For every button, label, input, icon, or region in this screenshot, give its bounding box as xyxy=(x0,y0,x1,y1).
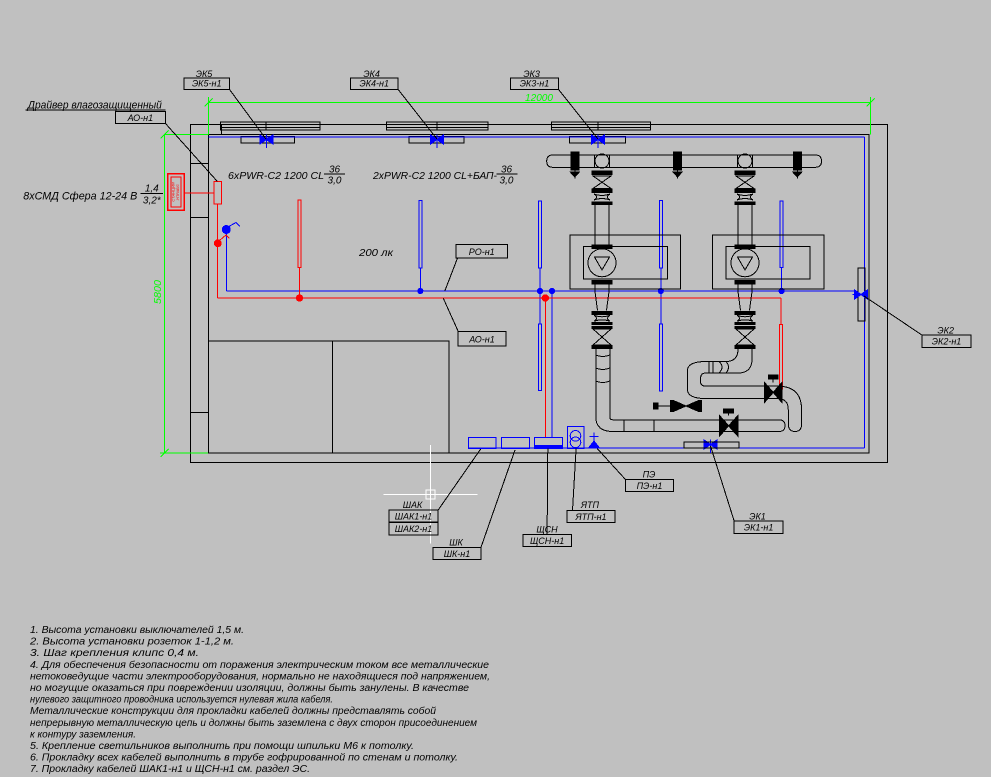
pipe mid horizontal xyxy=(706,385,778,387)
label AO-n1 top xyxy=(115,112,165,124)
panel SHAK xyxy=(468,438,496,449)
callout line EK1 xyxy=(711,446,735,521)
svg-text:ЭК2: ЭК2 xyxy=(937,325,954,335)
svg-text:нулевого защитного проводник: нулевого защитного проводника использует… xyxy=(30,694,333,706)
manifold tee 2 xyxy=(738,154,752,168)
junction box 1 xyxy=(241,137,295,144)
wire blue right wall drop xyxy=(864,137,866,448)
dimension arrow tick left top xyxy=(205,99,213,107)
wire red driver link xyxy=(184,192,214,194)
callout line AO driver xyxy=(165,123,217,181)
dimension arrow tick left dim bottom xyxy=(161,449,169,457)
left wall tick 3 xyxy=(191,412,208,414)
branch chain pump1 bottom xyxy=(595,293,609,311)
pipe right elbow down xyxy=(778,386,802,424)
svg-text:ПЭ-н1: ПЭ-н1 xyxy=(637,481,663,491)
pipe manifold top xyxy=(553,155,816,167)
wire blue drop to SCHSN xyxy=(551,291,553,438)
valve on floor pipe xyxy=(720,416,729,437)
junction dot red 1 xyxy=(296,295,302,301)
svg-text:ПЭ: ПЭ xyxy=(643,470,656,480)
branch chain pump1 top xyxy=(592,171,613,176)
label AO-n1 room xyxy=(458,331,506,345)
svg-text:к контуру заземления.: к контуру заземления. xyxy=(30,729,136,740)
svg-text:7. Прокладку кабелей ШАК1-н: 7. Прокладку кабелей ШАК1-н1 и ЩСН-н1 см… xyxy=(30,763,310,775)
linear lamp blue u1 xyxy=(419,201,422,269)
resistor driver red xyxy=(214,182,222,204)
junction box EK1 floor xyxy=(684,442,739,448)
svg-text:2. Высота установки розеток 1: 2. Высота установки розеток 1-1,2 м. xyxy=(29,637,234,648)
dimension extension bottom horizontal xyxy=(160,452,209,454)
svg-text:3,2*: 3,2* xyxy=(143,196,162,207)
svg-text:1,4: 1,4 xyxy=(145,184,159,195)
linear lamp red u1 xyxy=(298,200,301,268)
wire red right drop xyxy=(780,298,782,325)
dimension arrow tick left dim top xyxy=(161,131,169,139)
cursor crosshair xyxy=(384,493,478,495)
panel SCHSN xyxy=(535,438,563,449)
svg-text:12000: 12000 xyxy=(525,93,553,104)
store room rectangle xyxy=(209,341,450,453)
pipe pump2 S-bend xyxy=(726,349,752,373)
callout line EK3 xyxy=(558,89,598,139)
svg-text:ЯТП: ЯТП xyxy=(580,500,600,510)
pipe pump1 drop xyxy=(595,349,597,417)
svg-text:Драйвер влагозащищенный: Драйвер влагозащищенный xyxy=(26,99,162,111)
linear lamp red right xyxy=(780,325,783,390)
callout line YATP xyxy=(573,449,577,511)
svg-text:6. Прокладку всех кабелей: 6. Прокладку всех кабелей выполнить в тр… xyxy=(30,752,458,764)
svg-text:непрерывную металлическую це: непрерывную металлическую цепь и должны … xyxy=(30,717,477,729)
svg-text:ЭК3-н1: ЭК3-н1 xyxy=(520,78,550,88)
top wall tick xyxy=(221,125,223,135)
wall outlet X EK1 xyxy=(704,440,711,449)
svg-text:Металлические конструкции дл: Металлические конструкции для прокладки … xyxy=(30,705,436,717)
callout line PE xyxy=(597,449,625,480)
wire blue ceiling run xyxy=(209,136,865,138)
linear lamp blue u2 xyxy=(539,201,542,268)
dimension extension left vertical xyxy=(208,97,210,135)
gate valve manifold 1 xyxy=(570,152,579,171)
svg-text:ЩСН: ЩСН xyxy=(536,525,558,535)
junction dot blue 3 xyxy=(549,288,554,293)
left wall tick 1 xyxy=(191,163,208,165)
gate valve manifold 2 xyxy=(673,152,682,171)
dimension line 12000 horizontal xyxy=(209,102,871,104)
wire blue lamp drop left xyxy=(225,233,227,291)
svg-text:ЩСН-н1: ЩСН-н1 xyxy=(530,536,564,546)
wall outlet X EK2 xyxy=(855,290,862,299)
svg-text:4. Для обеспечения безопасн: 4. Для обеспечения безопасности от пораж… xyxy=(30,659,489,671)
callout line AO room xyxy=(443,298,458,331)
junction dot red 2 xyxy=(542,295,548,301)
svg-text:ШАК1-н1: ШАК1-н1 xyxy=(395,512,433,522)
junction dot blue 5 xyxy=(779,288,784,293)
wall outer outline xyxy=(191,125,888,463)
svg-text:200 лк: 200 лк xyxy=(358,247,394,259)
svg-text:3,0: 3,0 xyxy=(500,175,514,186)
svg-text:ШК: ШК xyxy=(449,538,463,548)
callout line EK4 xyxy=(398,89,437,139)
svg-text:ШК-н1: ШК-н1 xyxy=(444,549,471,559)
wire blue floor run xyxy=(468,447,865,449)
svg-text:ЭК1: ЭК1 xyxy=(749,512,766,522)
wire red drop from driver xyxy=(217,204,219,298)
pump unit 1 xyxy=(570,235,681,289)
svg-text:ЭК5-н1: ЭК5-н1 xyxy=(192,78,222,88)
svg-text:6хPWR-С2 1200 CL: 6хPWR-С2 1200 CL xyxy=(228,170,324,182)
ceiling outlet X EK5 xyxy=(260,135,267,144)
ground symbol PE xyxy=(593,433,595,448)
manifold tee 1 xyxy=(595,154,609,168)
driver box red xyxy=(168,174,185,211)
svg-text:1. Высота установки выключате: 1. Высота установки выключателей 1,5 м. xyxy=(30,625,244,636)
wall lamp EK2 rect xyxy=(858,268,865,321)
svg-text:ЭК1-н1: ЭК1-н1 xyxy=(744,523,774,533)
callout line SHK xyxy=(481,450,515,548)
linear lamp blue u3 xyxy=(659,201,662,269)
switch red symbol xyxy=(214,240,221,247)
store room divider xyxy=(332,341,334,453)
svg-text:3. Шаг крепления клипс 0,4 м: 3. Шаг крепления клипс 0,4 м. xyxy=(30,648,199,659)
callout line RO xyxy=(445,258,458,291)
panel SHK xyxy=(501,438,529,449)
label RO-n1 xyxy=(456,245,508,259)
dimension arrow tick right top xyxy=(867,99,875,107)
luminaire batten group 1 xyxy=(221,122,321,130)
svg-text:8хСМД Сфера 12-24 В: 8хСМД Сфера 12-24 В xyxy=(23,191,137,203)
linear lamp blue lower l2 xyxy=(659,324,662,391)
svg-text:АО-н1: АО-н1 xyxy=(127,113,153,123)
wire red mid run xyxy=(218,297,781,299)
notes text block xyxy=(29,625,490,775)
valve horizontal small xyxy=(673,401,686,412)
callout line SHAK xyxy=(438,449,481,511)
callout line SCHSN xyxy=(546,449,549,535)
dimension extension right vertical xyxy=(870,97,872,135)
junction dot blue 2 xyxy=(537,288,542,293)
linear lamp blue u4 xyxy=(780,201,783,268)
junction dot blue 1 xyxy=(418,288,423,293)
svg-text:ЭК4-н1: ЭК4-н1 xyxy=(359,78,389,88)
svg-text:3,0: 3,0 xyxy=(328,175,342,186)
dimension line 5800 vertical xyxy=(164,135,166,454)
svg-text:5. Крепление светильников в: 5. Крепление светильников выполнить при … xyxy=(30,741,414,752)
svg-text:РО-н1: РО-н1 xyxy=(469,247,495,257)
callout line EK5 xyxy=(229,89,266,139)
transformer YATP xyxy=(567,426,584,448)
pump unit 2 xyxy=(713,235,824,289)
callout line EK2 xyxy=(864,296,922,335)
svg-text:ШАК: ШАК xyxy=(403,500,423,510)
svg-text:2хPWR-С2 1200 CL+БАП-: 2хPWR-С2 1200 CL+БАП- xyxy=(372,170,497,182)
junction dot blue 4 xyxy=(658,288,663,293)
svg-text:нетоковедущие части электроо: нетоковедущие части электрооборудования,… xyxy=(30,670,490,682)
svg-text:ЯТП-н1: ЯТП-н1 xyxy=(574,512,606,522)
valve on mid pipe xyxy=(765,383,774,403)
left wall tick 2 xyxy=(191,217,208,219)
luminaire batten group 2 xyxy=(387,122,489,130)
svg-text:ШАК2-н1: ШАК2-н1 xyxy=(395,524,433,534)
junction box 3 xyxy=(569,137,625,144)
svg-text:ЭК2-н1: ЭК2-н1 xyxy=(932,337,962,347)
pipe floor horizontal xyxy=(613,419,779,421)
svg-text:5800: 5800 xyxy=(153,280,164,304)
gate valve manifold 3 xyxy=(793,152,802,171)
svg-text:УПРАВЛ.: УПРАВЛ. xyxy=(175,184,180,201)
ceiling outlet X EK4 xyxy=(431,135,438,144)
junction box 2 xyxy=(409,137,464,144)
svg-text:АО-н1: АО-н1 xyxy=(468,334,494,344)
lamp sconce blue xyxy=(222,226,230,234)
svg-text:но могущие оказаться при п: но могущие оказаться при повреждении изо… xyxy=(30,682,469,694)
luminaire batten group 3 xyxy=(552,122,651,130)
branch chain pump2 top xyxy=(735,171,756,176)
pipe elbow pump1 to floor xyxy=(596,417,613,432)
branch chain pump2 bottom xyxy=(738,293,752,311)
wall inner outline xyxy=(209,135,870,454)
wire blue mid run xyxy=(226,290,855,292)
ceiling outlet X EK3 xyxy=(592,135,599,144)
linear lamp blue lower l1 xyxy=(539,324,542,391)
dimension extension top horizontal xyxy=(165,134,209,136)
wire red drop to SCHSN xyxy=(544,298,546,438)
